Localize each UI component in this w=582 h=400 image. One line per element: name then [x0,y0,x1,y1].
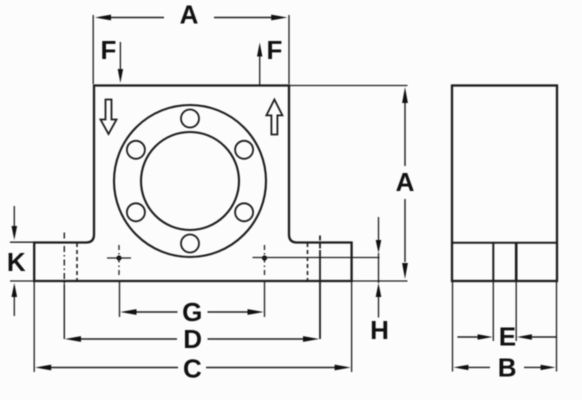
svg-text:H: H [370,315,389,345]
svg-text:A: A [396,167,415,197]
svg-text:F: F [100,35,116,65]
svg-text:K: K [7,247,26,277]
svg-text:F: F [267,35,283,65]
svg-text:D: D [183,324,202,354]
svg-text:G: G [182,297,202,327]
svg-text:B: B [498,353,517,383]
svg-text:C: C [183,354,202,384]
svg-text:E: E [499,322,516,352]
svg-text:A: A [180,0,199,30]
